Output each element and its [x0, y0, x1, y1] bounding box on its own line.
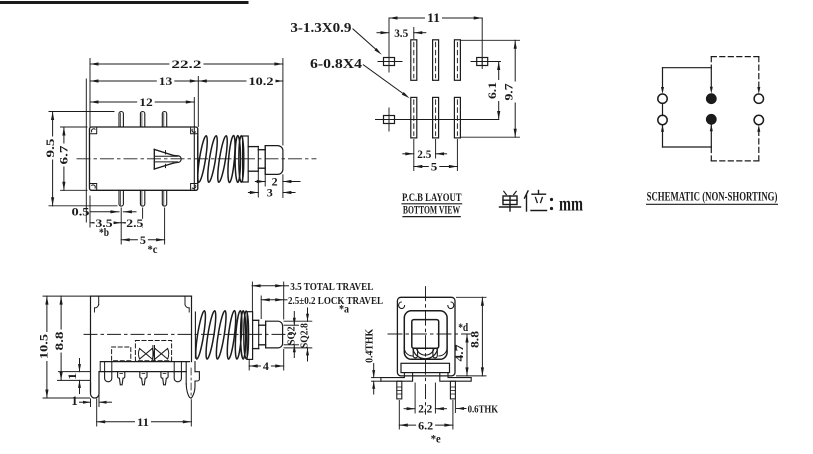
svg-text:SQ2.8: SQ2.8 — [300, 323, 311, 348]
switch body outline (front view) — [90, 127, 198, 190]
button cap — [265, 146, 283, 175]
end view inner frame — [404, 311, 447, 360]
dimension 4.7 — [454, 334, 468, 376]
end view body — [397, 297, 455, 376]
text 单位 (units) — [500, 191, 584, 216]
dimension 8.8 (end) — [469, 297, 484, 376]
ext slot1-top — [413, 28, 415, 39]
svg-text:3.5: 3.5 — [394, 26, 408, 40]
dimension 2.5 lock travel — [261, 296, 383, 307]
svg-text:22.2: 22.2 — [171, 57, 201, 71]
end view plunger arcs — [413, 348, 438, 358]
ext 10.5 — [43, 296, 90, 398]
mounting pad bottom-left — [384, 108, 395, 131]
svg-text:*d: *d — [458, 320, 468, 334]
hidden contact box right — [135, 341, 171, 361]
ext 4 — [249, 350, 284, 371]
callout 6-0.8X4 — [310, 56, 410, 98]
svg-text:*b: *b — [99, 225, 109, 239]
end view left tab — [381, 373, 413, 382]
ext 8.8 (end) — [457, 297, 487, 376]
caption SCHEMATIC (NON-SHORTING) — [647, 190, 778, 205]
dimension 0.4THK — [365, 328, 376, 394]
end view side springs — [404, 347, 447, 357]
terminal slots (6) — [411, 40, 461, 138]
dimension 5 (pcb) — [414, 160, 458, 174]
svg-text:11: 11 — [427, 11, 440, 25]
dimension 9.5 — [43, 112, 59, 206]
dimension SQ2 — [286, 312, 297, 358]
svg-text:*e: *e — [431, 432, 442, 446]
svg-text:6.1: 6.1 — [485, 82, 499, 99]
solder pins side view — [118, 372, 169, 385]
schematic left terminals — [658, 94, 667, 125]
body corner notches — [90, 127, 198, 190]
svg-text:8.8: 8.8 — [52, 332, 66, 351]
plunger cone detail — [154, 149, 181, 169]
svg-text:2.5: 2.5 — [126, 216, 143, 230]
side view left wall — [90, 296, 92, 392]
centerline (side view) — [84, 333, 292, 335]
label *e — [431, 432, 442, 446]
shaft (side view) — [253, 320, 266, 348]
dimension 10.5 — [37, 296, 53, 398]
svg-text:12: 12 — [139, 95, 153, 109]
dimension 5 — [121, 233, 164, 247]
ext 8.8 bottom — [58, 372, 90, 381]
end view crosshair — [388, 287, 471, 415]
left mounting leg — [91, 372, 100, 398]
svg-text:4: 4 — [263, 359, 269, 373]
label *a — [339, 302, 349, 316]
dimension 3.5 — [90, 216, 121, 230]
ext travel lines — [252, 282, 283, 319]
extension pin2 center — [142, 208, 144, 227]
mounting pad top-left — [378, 18, 402, 72]
dimension 12 — [90, 95, 194, 109]
label *c — [148, 242, 159, 256]
svg-text:SCHEMATIC (NON-SHORTING): SCHEMATIC (NON-SHORTING) — [647, 190, 778, 204]
dimension 8.8 (side) — [52, 296, 68, 380]
dimension 2.5 — [121, 216, 144, 230]
svg-text:0.6THK: 0.6THK — [468, 405, 499, 416]
svg-text:10.2: 10.2 — [249, 74, 274, 88]
dimension 6.7 — [57, 127, 73, 190]
dimension 6.2 — [399, 418, 453, 432]
dimension 22.2 — [90, 57, 283, 71]
dimension 3 — [248, 185, 295, 199]
spring washer disc — [243, 136, 249, 182]
end view corner hooks — [399, 302, 454, 309]
dimension 10.2 — [198, 74, 283, 88]
svg-text:10.5: 10.5 — [37, 334, 51, 359]
ext 11 (side) — [97, 399, 192, 426]
svg-text:2.5: 2.5 — [417, 147, 431, 161]
dimension 2.2 — [404, 401, 446, 415]
dimension 4 — [249, 359, 284, 373]
svg-text:2.5±0.2 LOCK TRAVEL: 2.5±0.2 LOCK TRAVEL — [288, 296, 383, 307]
base plate — [99, 362, 189, 372]
side view top-right hook — [185, 296, 189, 312]
label *d — [458, 320, 468, 334]
schematic open path top (dashed) — [711, 57, 760, 94]
schematic right terminals — [754, 94, 763, 125]
ext 9.7 bottom — [461, 136, 520, 138]
callout 3-1.3X0.9 — [290, 20, 381, 55]
svg-text:13: 13 — [159, 74, 173, 88]
terminal hooks (U) — [105, 372, 182, 382]
ext slots bottom — [414, 140, 458, 171]
centerline (front view) — [77, 158, 316, 160]
dimension 13 — [90, 74, 198, 88]
end view right tab — [440, 373, 471, 382]
svg-text:11: 11 — [137, 415, 149, 429]
svg-text:2.2: 2.2 — [418, 401, 432, 415]
spring (side view) — [194, 310, 249, 359]
extension pin1 center — [120, 208, 122, 244]
dimension 6.1 — [485, 62, 501, 120]
dimension 9.7 — [502, 40, 518, 137]
svg-text:BOTTOM VIEW: BOTTOM VIEW — [403, 203, 460, 217]
svg-text:0.5: 0.5 — [72, 205, 90, 219]
extension line cap-front — [264, 175, 266, 186]
side view right wall — [191, 296, 193, 362]
dimension 1 (plate thickness) — [65, 359, 81, 394]
moving contacts — [138, 346, 168, 361]
dimension 0.5 pin thickness — [72, 205, 137, 219]
dimension 11 (pcb) — [389, 11, 482, 25]
extension line button-right — [282, 59, 284, 198]
dimension 1 (leg width) — [71, 386, 111, 408]
ext SQ2.8 — [284, 321, 312, 348]
ext 6.2 — [399, 401, 453, 430]
label *b — [99, 225, 109, 239]
hidden contact box left — [112, 347, 131, 361]
extension line body-left — [86, 59, 90, 228]
end view base band — [401, 363, 450, 372]
svg-text:3.5 TOTAL TRAVEL: 3.5 TOTAL TRAVEL — [290, 282, 373, 293]
right mounting leg — [186, 362, 199, 399]
svg-text:8.8: 8.8 — [469, 331, 481, 348]
ext 9.7 top — [461, 39, 520, 41]
svg-text:9.5: 9.5 — [43, 139, 57, 158]
pad row line — [376, 119, 499, 121]
svg-text:6.2: 6.2 — [418, 418, 433, 432]
spring (front view) — [196, 135, 244, 183]
side view top-left hook — [95, 296, 99, 312]
ext 0.6THK — [454, 400, 456, 413]
svg-text:6-0.8X4: 6-0.8X4 — [310, 56, 362, 71]
schematic closed path top — [661, 68, 713, 94]
side view top plate — [91, 295, 192, 297]
svg-text:1: 1 — [71, 393, 78, 408]
dimension 2 — [255, 174, 300, 188]
svg-text:3-1.3X0.9: 3-1.3X0.9 — [290, 20, 351, 35]
svg-text:*c: *c — [148, 242, 159, 256]
svg-text:3: 3 — [267, 185, 273, 199]
svg-text:4.7: 4.7 — [454, 344, 466, 361]
dimension SQ2.8 — [300, 308, 311, 361]
schematic closed path bottom — [661, 124, 713, 147]
caption P.C.B LAYOUT — [402, 190, 462, 217]
push shaft — [248, 146, 265, 175]
extension line 12-right — [193, 98, 195, 127]
ext 2.2 — [415, 383, 435, 413]
extension pin3 center — [164, 208, 166, 244]
extension line 13-right — [197, 77, 199, 127]
extension lines 9.5 — [49, 112, 117, 206]
svg-text:1: 1 — [65, 373, 79, 380]
dimension 3.5 (pcb) — [377, 26, 426, 40]
ext 0.4THK — [372, 378, 381, 382]
end view plunger — [412, 320, 439, 349]
ext SQ2 — [284, 325, 299, 345]
schematic open path bottom (dashed) — [711, 125, 760, 161]
button cap (side view) — [266, 321, 283, 348]
svg-text:0.4THK: 0.4THK — [365, 328, 376, 363]
extension line shaft-step — [257, 172, 259, 198]
dimension 0.6THK — [457, 405, 499, 416]
extension lines 6.7 — [61, 127, 88, 190]
dimension 2.5 (pcb) — [403, 147, 447, 161]
svg-text:SQ2: SQ2 — [286, 326, 297, 345]
svg-text:9.7: 9.7 — [502, 84, 516, 101]
svg-text:5: 5 — [140, 233, 146, 247]
end view pins — [397, 381, 456, 399]
svg-text:*a: *a — [339, 302, 349, 316]
washer (side view) — [247, 312, 253, 360]
svg-text:mm: mm — [559, 194, 583, 216]
svg-text:5: 5 — [431, 160, 438, 174]
top border line — [0, 1, 247, 4]
schematic common poles — [706, 94, 716, 124]
dimension 11 (side) — [97, 415, 192, 429]
dimension 3.5 total travel — [252, 282, 373, 293]
mounting pad top-right — [471, 18, 501, 69]
svg-text:6.7: 6.7 — [57, 146, 71, 165]
switch terminals front view (3 top, 3 bottom) — [119, 112, 167, 207]
